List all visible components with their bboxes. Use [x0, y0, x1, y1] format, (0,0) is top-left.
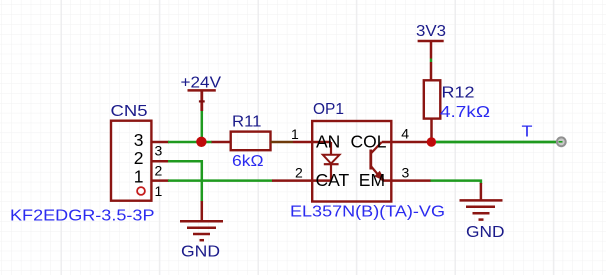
optocoupler OP1: [290, 101, 445, 221]
node A junction dot (+24V / CN5.3 / R11): [196, 137, 206, 147]
svg-text:3: 3: [402, 164, 410, 180]
wire CN5 pin1 to OP1 CAT: [151, 179, 169, 182]
pin 2 CAT internal: [313, 179, 331, 182]
svg-text:2: 2: [155, 163, 163, 179]
ground GND (left, under CN5 pin2 net): [180, 221, 223, 260]
wire CN5 pin2 to ground riser: [151, 160, 169, 163]
node B junction dot (R12 / OP1.4 / T): [427, 137, 436, 146]
svg-text:AN: AN: [316, 132, 340, 152]
svg-text:EL357N(B)(TA)-VG: EL357N(B)(TA)-VG: [290, 204, 445, 221]
svg-text:T: T: [522, 124, 533, 141]
svg-text:OP1: OP1: [313, 101, 344, 118]
wire OP1 pin4 to junction B: [391, 141, 427, 144]
svg-text:3: 3: [155, 143, 163, 159]
connector CN5: [10, 103, 163, 225]
svg-text:2: 2: [295, 165, 303, 181]
power flag 3V3: [416, 23, 446, 81]
svg-text:GND: GND: [181, 244, 220, 261]
svg-text:R12: R12: [442, 84, 475, 101]
svg-text:GND: GND: [466, 224, 505, 241]
svg-text:+24V: +24V: [181, 75, 222, 92]
svg-text:CN5: CN5: [111, 103, 148, 120]
svg-text:6kΩ: 6kΩ: [232, 153, 264, 170]
svg-text:R11: R11: [232, 113, 262, 130]
node T unconnected wire-end marker: [557, 137, 566, 146]
wire CN5 pin3 to junction A: [151, 141, 169, 144]
power flag +24V: [181, 75, 222, 139]
wire OP1 pin3 to ground: [391, 179, 431, 182]
svg-text:COL: COL: [351, 132, 387, 152]
resistor R12: [424, 80, 490, 139]
wire T net: [436, 141, 560, 144]
svg-text:KF2EDGR-3.5-3P: KF2EDGR-3.5-3P: [10, 208, 155, 225]
phototransistor inside OP1: [369, 150, 372, 170]
svg-text:2: 2: [134, 148, 144, 168]
pin 1 AN internal: [313, 141, 331, 144]
LED diode inside OP1: [330, 142, 332, 155]
svg-text:CAT: CAT: [316, 170, 350, 190]
svg-text:4.7kΩ: 4.7kΩ: [440, 104, 490, 121]
svg-text:1: 1: [155, 183, 163, 199]
svg-text:3: 3: [134, 130, 144, 150]
svg-text:1: 1: [134, 166, 144, 186]
svg-text:1: 1: [291, 126, 299, 142]
svg-text:EM: EM: [359, 170, 385, 190]
ground GND (right, OP1 emitter net): [460, 200, 505, 241]
resistor R11: [212, 113, 313, 170]
svg-text:4: 4: [401, 126, 409, 142]
svg-text:3V3: 3V3: [416, 23, 446, 40]
